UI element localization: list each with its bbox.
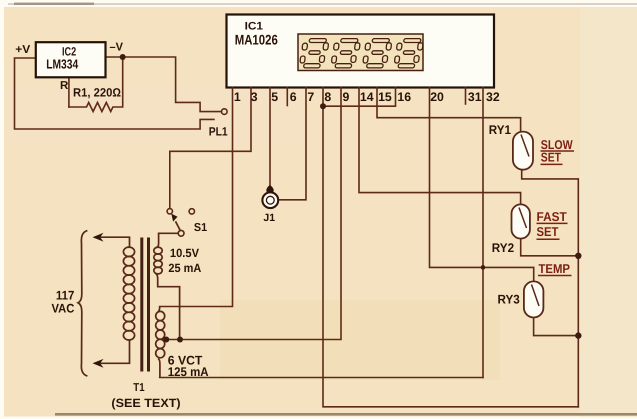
svg-text:LM334: LM334 <box>46 57 79 72</box>
wire pin 9 to center tap <box>162 88 341 340</box>
wire RY2 bottom <box>521 239 579 256</box>
svg-text:SET: SET <box>537 224 559 239</box>
svg-text:25 mA: 25 mA <box>168 261 201 275</box>
svg-text:R1, 220Ω: R1, 220Ω <box>73 85 121 99</box>
resistor R1 zigzag <box>69 57 123 112</box>
relay RY2 <box>512 204 530 238</box>
wire pin 15 to RY1 <box>377 88 521 132</box>
pin 6 stub <box>286 88 288 106</box>
IC1 box <box>227 15 495 88</box>
svg-text:125 mA: 125 mA <box>168 365 209 379</box>
wire pin 5 to J1 tip <box>269 88 271 187</box>
svg-text:16: 16 <box>397 90 411 104</box>
secondary 10.5V winding <box>156 233 178 247</box>
svg-text:31: 31 <box>468 90 482 104</box>
jack J1 <box>266 185 273 194</box>
svg-text:PL1: PL1 <box>209 125 228 139</box>
svg-text:RY3: RY3 <box>498 293 520 307</box>
wire pin 8 to pin 16 tie <box>323 88 396 107</box>
wire pin 31 stub <box>465 88 467 105</box>
core bar right <box>147 238 150 372</box>
wire pin 14 to RY2 <box>359 88 521 205</box>
svg-text:8: 8 <box>324 90 331 104</box>
center tap stub <box>165 339 168 341</box>
svg-text:15: 15 <box>378 90 392 104</box>
svg-text:20: 20 <box>430 90 444 104</box>
wire +V loop from IC2 left to PL1 lower prong <box>15 58 214 129</box>
relay RY3 <box>524 281 544 317</box>
svg-text:T1: T1 <box>133 382 145 394</box>
wire pin 32 drop <box>482 88 484 118</box>
transformer T1 <box>97 233 180 377</box>
svg-text:(SEE TEXT): (SEE TEXT) <box>111 396 180 410</box>
wire -V from IC2 right to PL1 upper prong <box>106 57 222 112</box>
top scan line <box>8 3 637 5</box>
wire pin 8 long drop to bottom rail <box>323 88 578 407</box>
svg-text:TEMP: TEMP <box>539 261 571 276</box>
svg-text:1: 1 <box>234 90 241 104</box>
svg-text:10.5V: 10.5V <box>170 246 199 260</box>
svg-text:RY1: RY1 <box>489 123 511 137</box>
core bar left <box>140 238 143 372</box>
junction center tap <box>163 337 169 343</box>
switch S1 <box>167 209 172 214</box>
svg-text:9: 9 <box>343 90 350 104</box>
svg-text:+V: +V <box>15 44 30 56</box>
primary coil <box>123 247 134 340</box>
wire bus x483 down to 6VCT return <box>482 118 484 378</box>
display digit 3 <box>362 39 392 68</box>
svg-text:117: 117 <box>56 288 75 302</box>
wire pin 1 to transformer secondary <box>160 88 233 307</box>
primary top lead <box>97 237 130 247</box>
connector PL1 tip circle <box>222 109 228 115</box>
svg-text:FAST: FAST <box>537 209 567 224</box>
svg-text:5: 5 <box>271 90 278 104</box>
brace 117VAC <box>78 231 87 377</box>
junction pin8 <box>320 103 326 109</box>
primary bottom lead <box>97 340 130 364</box>
junction right rail RY2 <box>575 253 581 259</box>
junction right rail RY3 <box>575 332 581 338</box>
junction -V node <box>120 54 126 60</box>
relay RY1 <box>513 132 533 170</box>
svg-text:–V: –V <box>110 42 124 54</box>
svg-text:RY2: RY2 <box>492 241 514 255</box>
wire right rail <box>522 170 579 407</box>
display window <box>298 34 423 71</box>
junction bus/RY3 feed <box>481 265 486 270</box>
svg-text:MA1026: MA1026 <box>235 31 278 47</box>
svg-text:S1: S1 <box>194 222 208 234</box>
svg-text:32: 32 <box>486 90 500 104</box>
svg-text:J1: J1 <box>263 212 275 224</box>
junction secondary return <box>177 337 183 343</box>
svg-text:7: 7 <box>307 90 314 104</box>
display digit 4 <box>394 39 424 68</box>
wire 6VCT return <box>160 377 483 379</box>
svg-text:14: 14 <box>360 90 374 104</box>
secondary 6VCT winding <box>158 307 160 312</box>
svg-text:6: 6 <box>290 90 297 104</box>
svg-text:VAC: VAC <box>52 301 75 315</box>
svg-text:R: R <box>60 80 69 92</box>
wire pin 3 to S1 <box>170 88 251 209</box>
display digit 1 <box>299 39 329 68</box>
wire RY3 bottom <box>534 318 579 336</box>
arrow primary top <box>93 233 104 242</box>
svg-text:3: 3 <box>251 90 258 104</box>
wire R pin drop <box>68 77 70 107</box>
bottom scan line <box>55 413 637 416</box>
IC2 box <box>36 42 106 77</box>
wire pin 7 to J1 ring <box>279 88 306 200</box>
wire pin 20 to RY3 <box>430 88 534 282</box>
arrow primary bottom <box>93 359 104 368</box>
label SLOW SET <box>537 137 574 276</box>
display digit 2 <box>331 39 361 68</box>
